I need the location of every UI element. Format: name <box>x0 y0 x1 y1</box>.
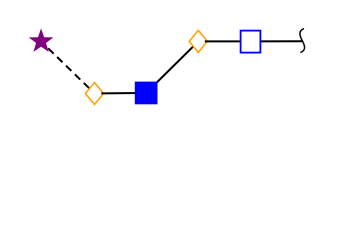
wire: linkage from orange diamond D2 to open blue square <box>205 40 251 42</box>
residue: open blue square <box>241 31 261 53</box>
wire: dashed linkage from purple star to orange diamond D1 <box>41 41 94 93</box>
residue: purple star <box>29 28 54 52</box>
residue: orange open diamond D2 <box>189 30 207 52</box>
wire: linkage from open blue square to reducing-end squiggle <box>250 40 302 42</box>
reducing-end squiggle bracket <box>300 29 305 53</box>
residue: orange open diamond D1 <box>85 83 103 105</box>
wire: linkage from blue square up to orange diamond D2 <box>146 41 198 93</box>
wire: linkage from orange diamond D1 to blue square <box>101 92 146 94</box>
residue: filled blue square (GlcNAc) <box>135 82 158 105</box>
